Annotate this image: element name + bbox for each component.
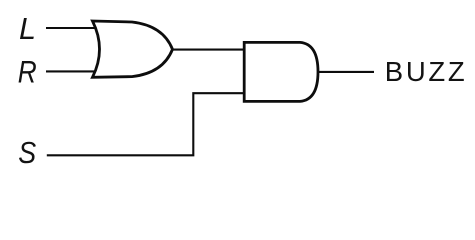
and-gate U2	[244, 42, 318, 101]
wire S input	[47, 93, 243, 155]
svg-text:BUZZ: BUZZ	[385, 56, 468, 87]
wire R input	[46, 70, 96, 72]
wire L input	[46, 27, 96, 29]
or-gate U1	[93, 21, 173, 77]
svg-text:S: S	[18, 137, 36, 171]
wire OR output to AND input	[171, 49, 244, 51]
svg-text:L: L	[19, 12, 36, 46]
wire AND output	[317, 71, 374, 73]
svg-text:R: R	[18, 55, 37, 90]
